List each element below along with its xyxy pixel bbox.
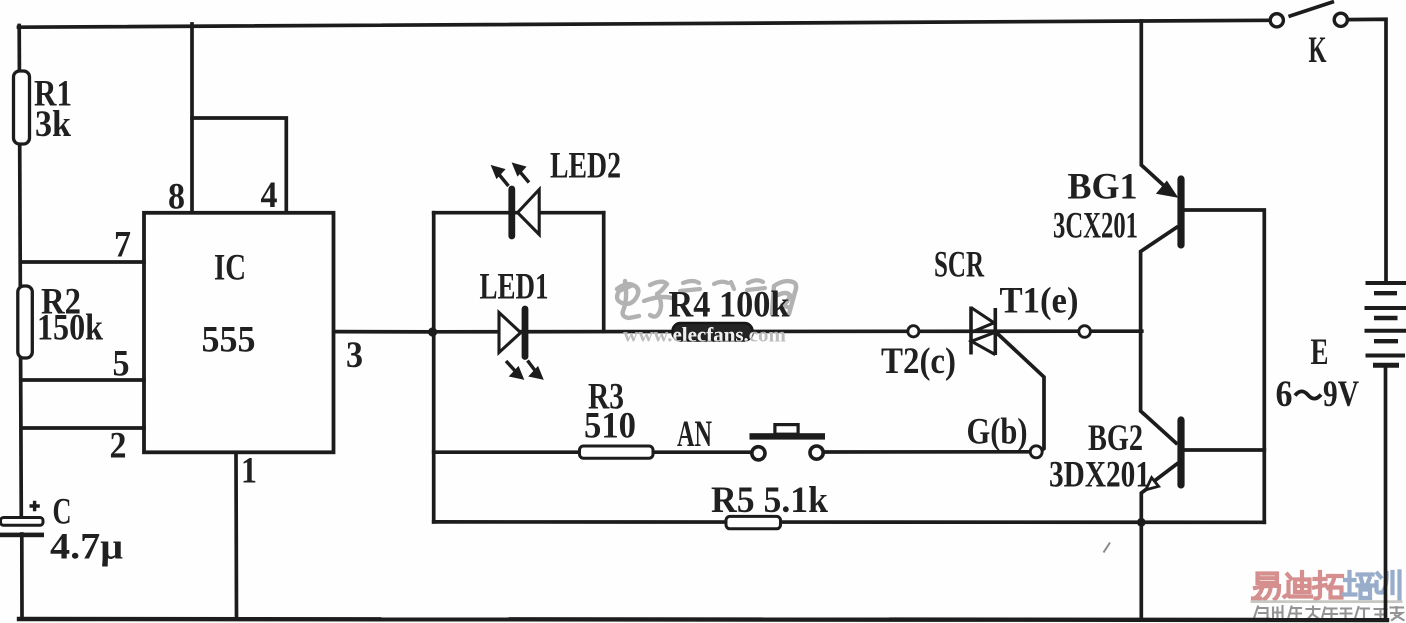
svg-text:6: 6 xyxy=(1276,374,1293,415)
wire pin8 vertical from top rail xyxy=(190,24,194,213)
switch K right contact xyxy=(1334,13,1347,26)
watermark char di (red) xyxy=(1285,572,1312,597)
wire BG1 base to right bus xyxy=(1184,210,1265,522)
svg-text:IC: IC xyxy=(214,248,246,289)
pushbutton AN left contact xyxy=(752,447,765,460)
transistor BG2 bar xyxy=(1177,420,1184,485)
switch K arm xyxy=(1289,2,1335,17)
wire left rail upper xyxy=(19,26,21,522)
LED LED2 light arrows xyxy=(494,165,530,186)
svg-text:AN: AN xyxy=(677,414,712,455)
wire button to G terminal xyxy=(825,450,1030,454)
LED LED2 triangle xyxy=(518,190,540,235)
svg-text:LED1: LED1 xyxy=(480,267,549,308)
svg-text:R5 5.1k: R5 5.1k xyxy=(711,480,828,521)
watermark script char wang xyxy=(772,281,796,314)
watermark script char fa xyxy=(680,281,700,291)
svg-text:3k: 3k xyxy=(35,104,71,145)
wire BG2 collector branch xyxy=(1141,331,1176,443)
terminal T1(e) open circle xyxy=(1079,326,1091,338)
wire battery to bottom rail xyxy=(1384,367,1388,620)
wire pin8-pin4 bridge xyxy=(192,118,286,213)
SCR left bar xyxy=(969,307,973,355)
svg-text:510: 510 xyxy=(584,406,636,447)
svg-text:R4 100k: R4 100k xyxy=(669,285,790,326)
resistor R3 xyxy=(580,446,654,458)
LED LED1 triangle xyxy=(499,313,521,353)
battery E plates xyxy=(1365,283,1406,365)
wire T1 terminal to BG branch xyxy=(1091,329,1141,333)
wire BG2 emitter diagonal xyxy=(1151,464,1177,484)
transistor BG1 bar xyxy=(1177,179,1184,245)
wire T2 terminal to T1 terminal xyxy=(920,329,1079,333)
capacitor C bottom plate xyxy=(0,533,44,538)
wire pin2 xyxy=(21,426,144,430)
wire top rail xyxy=(19,20,1270,27)
pushbutton AN bar xyxy=(750,433,826,439)
stray mark slash xyxy=(1104,543,1111,553)
resistor R4 dark body xyxy=(673,323,753,341)
svg-text:1: 1 xyxy=(241,451,257,492)
wire LED2 branch right vertical xyxy=(602,213,606,332)
wire R3 rail to button xyxy=(434,450,751,454)
IC 555 box U1 xyxy=(144,213,334,452)
SCR right bar xyxy=(993,308,997,355)
wire R5 rail xyxy=(434,520,1265,524)
wire bottom rail xyxy=(19,619,1387,620)
svg-text:5: 5 xyxy=(113,344,130,385)
svg-text:BG2: BG2 xyxy=(1088,418,1143,459)
watermark script char zi xyxy=(644,282,672,317)
terminal G(b) open circle xyxy=(1030,446,1042,458)
pushbutton AN actuator xyxy=(775,425,798,435)
wire LED branch vertical xyxy=(432,213,436,522)
svg-text:150k: 150k xyxy=(37,308,103,349)
resistor R2 xyxy=(18,286,33,358)
wire LED2 top branch xyxy=(434,211,604,215)
svg-text:SCR: SCR xyxy=(934,245,985,286)
transistor BG2 emitter open arrowhead xyxy=(1146,478,1159,490)
capacitor C top plate xyxy=(1,518,44,526)
LED LED2 cathode bar xyxy=(508,189,515,236)
svg-text:9V: 9V xyxy=(1323,374,1359,415)
node A junction dot xyxy=(428,327,437,336)
watermark script char dian xyxy=(617,281,639,318)
svg-text:555: 555 xyxy=(202,320,256,361)
watermark script char shao xyxy=(714,282,734,289)
svg-text:8: 8 xyxy=(168,177,185,218)
svg-text:3DX201: 3DX201 xyxy=(1049,455,1150,496)
svg-text:T1(e): T1(e) xyxy=(1000,281,1079,322)
SCR upper triangle xyxy=(971,308,994,333)
svg-text:2: 2 xyxy=(110,426,127,467)
wire pin7 xyxy=(21,260,145,264)
watermark char xun (blue) xyxy=(1377,572,1400,600)
svg-text:G(b): G(b) xyxy=(967,412,1028,453)
svg-text:BG1: BG1 xyxy=(1068,167,1138,208)
wire left rail lower xyxy=(20,534,24,619)
watermark small gray text row xyxy=(1254,606,1404,621)
watermark char yi (red) xyxy=(1253,574,1279,600)
svg-text:4: 4 xyxy=(261,175,278,216)
transistor BG1 collector arrowhead xyxy=(1157,182,1177,197)
svg-text:T2(c): T2(c) xyxy=(881,341,956,382)
watermark char pei (blue) xyxy=(1344,572,1373,598)
wire BG1 emitter xyxy=(1141,228,1177,332)
svg-text:K: K xyxy=(1309,30,1327,71)
wire switch K to right rail xyxy=(1348,19,1386,281)
wire pin1 to bottom rail xyxy=(234,453,238,620)
svg-text:E: E xyxy=(1311,332,1329,373)
svg-text:4.7μ: 4.7μ xyxy=(50,527,123,568)
wire BG2 base xyxy=(1184,448,1265,452)
LED LED1 light arrows xyxy=(506,361,541,378)
watermark char tuo (red) xyxy=(1314,572,1342,599)
capacitor C plus sign xyxy=(30,501,40,511)
watermark underline xyxy=(1252,600,1401,603)
watermark script char you xyxy=(747,280,765,290)
wire pin5 xyxy=(21,378,144,382)
wire BG2 emitter to bottom rail xyxy=(1141,490,1146,620)
wire SCR gate lead xyxy=(996,333,1044,452)
svg-text:LED2: LED2 xyxy=(550,146,621,187)
SCR lower triangle xyxy=(972,332,996,354)
wire node A to T2 terminal xyxy=(432,329,907,333)
pushbutton AN right contact xyxy=(810,446,823,459)
svg-text:7: 7 xyxy=(114,225,131,266)
svg-text:3: 3 xyxy=(346,335,363,376)
wire pin3 to node A xyxy=(334,330,432,334)
svg-text:3CX201: 3CX201 xyxy=(1053,206,1138,247)
switch K left contact xyxy=(1270,14,1283,27)
junction dot BG2 emitter to R5 rail xyxy=(1137,518,1146,527)
wire BG1 collector from top rail xyxy=(1141,21,1172,194)
resistor R1 xyxy=(14,71,30,144)
resistor R5 xyxy=(726,516,781,528)
terminal T2(c) open circle xyxy=(908,326,919,337)
LED LED1 cathode bar xyxy=(522,309,529,357)
